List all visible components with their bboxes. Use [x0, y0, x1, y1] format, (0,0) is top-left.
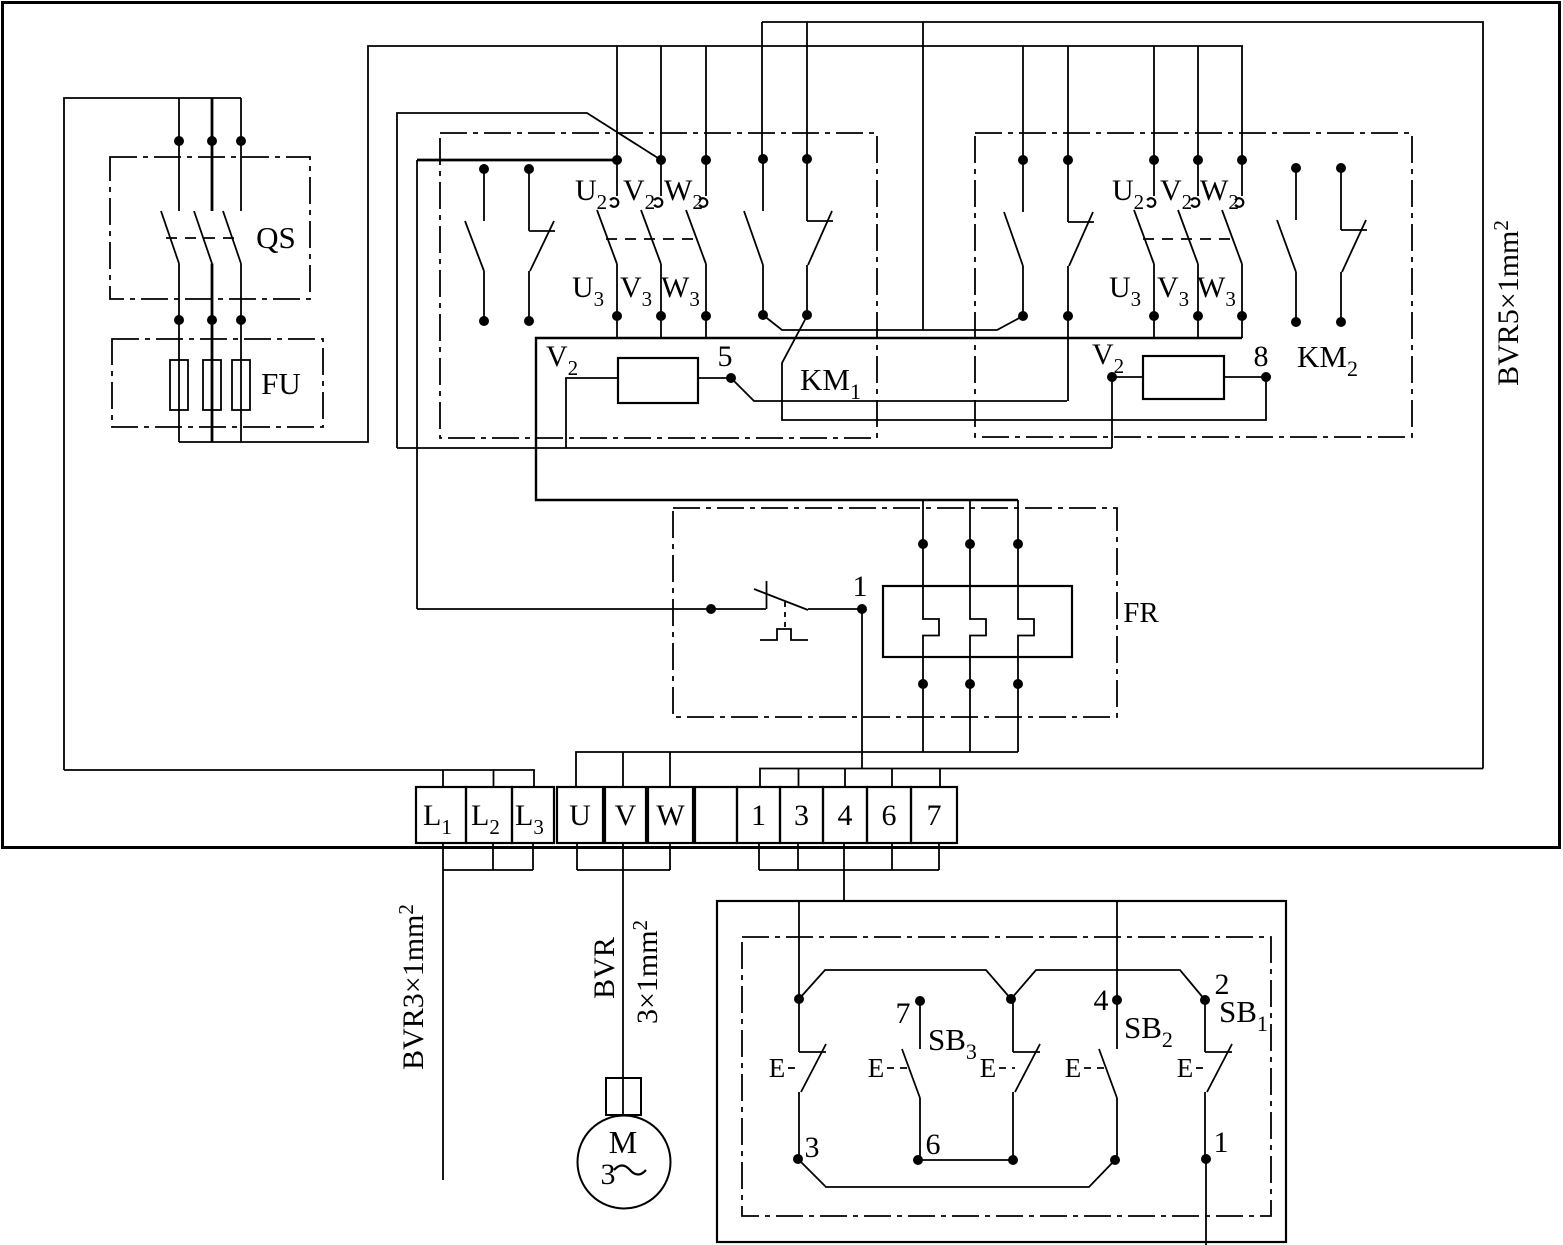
label KM2 U3 — [1109, 271, 1141, 311]
label KM2 W3 — [1197, 271, 1236, 311]
svg-text:6: 6 — [926, 1128, 941, 1161]
label BVR5x1mm2 — [1489, 220, 1525, 386]
node FR input — [706, 604, 716, 614]
wire numbered terminals bundle below — [759, 843, 939, 870]
wire KM2 outputs to bundle — [1154, 316, 1242, 338]
contactor KM1 enclosure — [440, 133, 877, 438]
svg-text:5: 5 — [718, 340, 733, 373]
svg-text:1: 1 — [1214, 1126, 1229, 1159]
wire to button station — [843, 870, 845, 901]
label KM2 coil V2 — [1092, 338, 1124, 378]
node SB column tops — [794, 994, 1210, 1006]
svg-text:3: 3 — [794, 799, 809, 832]
svg-text:E: E — [980, 1053, 997, 1083]
KM1 main contact V — [641, 160, 662, 316]
node QS output dots — [174, 315, 246, 325]
label KM2 U2 — [1112, 174, 1144, 214]
label node 5 — [718, 340, 733, 373]
terminal labels — [423, 799, 942, 839]
svg-text:E: E — [1065, 1053, 1082, 1083]
label SB2 — [1124, 1010, 1173, 1052]
label KM1 U3 — [572, 271, 604, 311]
label node 1 bottom — [1214, 1126, 1229, 1159]
label KM1 coil V2 — [546, 340, 578, 380]
wire node 1 to terminal bundle — [861, 609, 863, 769]
svg-text:M: M — [609, 1124, 637, 1160]
label KM2 V3 — [1157, 271, 1189, 311]
wire upper control bus — [762, 22, 1483, 769]
node KM2 main input dots — [1149, 155, 1247, 165]
label node 3 bottom — [805, 1131, 820, 1164]
coil KM1 — [566, 358, 731, 448]
KM2 linkage — [1143, 238, 1236, 240]
KM1 spare aux NC — [524, 164, 555, 326]
wire terminals UVW to motor cable — [577, 843, 670, 870]
svg-text:4: 4 — [1094, 984, 1109, 1017]
label KM1 W3 — [661, 271, 700, 311]
wire supply bus to QS — [64, 98, 241, 770]
svg-text:E: E — [1177, 1053, 1194, 1083]
FR heater box — [883, 586, 1072, 657]
svg-text:BVR: BVR — [588, 937, 621, 999]
node KM2 main output dots — [1149, 311, 1247, 321]
svg-text:QS: QS — [256, 220, 296, 255]
terminal strip XT — [416, 787, 957, 843]
label SB1 — [1219, 994, 1268, 1036]
button station inner frame — [742, 937, 1271, 1216]
fuse FU3 — [232, 320, 250, 442]
KM2 main contact W — [1222, 160, 1243, 316]
FR heater element 1 — [918, 500, 939, 752]
svg-text:8: 8 — [1254, 340, 1269, 373]
wire KM2 aux risers — [1023, 46, 1068, 160]
svg-text:BVR5×1mm2: BVR5×1mm2 — [1489, 220, 1525, 386]
node 8 — [1261, 372, 1271, 382]
label FU — [261, 366, 301, 401]
label 3x1mm2 — [628, 920, 664, 1024]
KM1 aux NC contact — [802, 154, 833, 320]
FR heater element 2 — [965, 500, 986, 752]
label node 2 — [1215, 968, 1230, 1001]
label KM2 V2 — [1160, 174, 1192, 214]
FR heater element 3 — [1013, 500, 1034, 752]
svg-text:3: 3 — [601, 1158, 616, 1191]
svg-text:U: U — [569, 799, 591, 832]
QS linkage — [166, 237, 241, 239]
svg-text:E: E — [868, 1053, 885, 1083]
label node 4 — [1094, 984, 1109, 1017]
label KM1 W2 — [664, 174, 703, 214]
label BVR — [588, 937, 621, 999]
motor M — [578, 1116, 671, 1209]
svg-text:4: 4 — [838, 799, 853, 832]
svg-text:W: W — [656, 799, 685, 832]
svg-text:BVR3×1mm2: BVR3×1mm2 — [394, 904, 430, 1070]
wire riser to KM1 aux NC — [806, 22, 808, 159]
wire node 5 to KM2 aux NC — [731, 378, 1067, 401]
wire cable BVR to motor — [622, 870, 624, 1116]
push button stop 3 — [769, 999, 826, 1159]
wire cable BVR3 — [442, 870, 444, 1180]
fuse FU1 — [170, 320, 188, 442]
wire FU output bundle — [179, 46, 1243, 442]
wire station lower bundle — [798, 1159, 1115, 1187]
label node 7 — [896, 997, 911, 1030]
wire KM1 aux NO to KM2 aux NO — [763, 315, 1023, 330]
label KM1 U2 — [575, 174, 607, 214]
wire FR outputs to terminals U V W — [576, 752, 1018, 787]
node KM1 main input dots — [612, 155, 711, 165]
svg-text:E: E — [769, 1053, 786, 1083]
button station enclosure — [717, 901, 1286, 1242]
KM1 main contact W — [686, 160, 707, 316]
contactor KM2 enclosure — [975, 133, 1412, 437]
switch QS pole 2 — [194, 141, 212, 320]
wire coil bundle — [397, 447, 1112, 449]
label BVR3x1mm2 — [394, 904, 430, 1070]
KM1 aux NO contact — [744, 154, 768, 320]
wire riser middle — [922, 22, 924, 330]
label SB3 — [928, 1022, 977, 1064]
wire KM1 main risers — [617, 46, 706, 160]
KM2 main contact U — [1134, 160, 1155, 316]
wire node 1 exit — [1205, 1159, 1207, 1245]
svg-text:6: 6 — [882, 799, 897, 832]
motor M terminal box — [606, 1078, 641, 1115]
node SB column bottoms — [793, 1154, 1211, 1165]
wire control to FR test switch — [417, 608, 711, 610]
label node 8 — [1254, 340, 1269, 373]
svg-text:1: 1 — [751, 799, 766, 832]
wire control tap — [417, 160, 617, 609]
push button SB1 — [1177, 1000, 1232, 1159]
wire KM1 aux NC to node 8 — [782, 316, 1266, 420]
wire terminals L to supply cable — [443, 843, 533, 870]
svg-text:1: 1 — [853, 570, 868, 603]
svg-text:7: 7 — [896, 997, 911, 1030]
label KM1 — [800, 362, 861, 404]
svg-text:FR: FR — [1123, 597, 1159, 629]
svg-text:FU: FU — [261, 366, 301, 401]
outer enclosure border — [3, 3, 1560, 848]
switch QS pole 1 — [161, 141, 179, 320]
label KM1 V2 — [623, 174, 655, 214]
fuse FU enclosure — [112, 339, 323, 427]
svg-text:V: V — [615, 799, 637, 832]
push button stop middle — [980, 999, 1040, 1160]
KM2 spare aux NO — [1277, 163, 1301, 327]
KM2 aux NO contact — [1004, 155, 1028, 321]
node 1 — [857, 604, 867, 614]
label KM2 W2 — [1200, 174, 1239, 214]
push button SB2 — [1065, 1000, 1117, 1160]
node 5 — [726, 373, 736, 383]
wire into station node 3 column — [798, 901, 800, 999]
label FR — [1123, 597, 1159, 629]
node QS input dots — [174, 136, 246, 146]
label QS — [256, 220, 296, 255]
label node 6 bottom — [926, 1128, 941, 1161]
wire control bundle to numbered terminals — [760, 769, 1483, 788]
wire branch to KM1 V2 dot — [397, 113, 661, 448]
wire KM2 aux NC drop — [1067, 316, 1069, 401]
disconnect switch QS enclosure — [110, 157, 310, 299]
push button SB3 — [868, 1001, 920, 1160]
wire KM1 outputs to bundle — [617, 316, 706, 338]
wire riser to KM1 aux NO — [761, 22, 763, 159]
svg-text:7: 7 — [927, 799, 942, 832]
switch QS pole 3 — [223, 141, 241, 320]
KM2 aux NC contact — [1063, 155, 1094, 321]
svg-text:3×1mm2: 3×1mm2 — [628, 920, 664, 1024]
svg-text:3: 3 — [805, 1131, 820, 1164]
wire supply to terminals L1 L2 L3 — [64, 770, 534, 787]
label node 1 — [853, 570, 868, 603]
thermal relay FR enclosure — [673, 508, 1117, 717]
KM1 main contact U — [597, 160, 618, 316]
wire motor tap bundle — [536, 338, 1242, 500]
label KM1 V3 — [620, 271, 652, 311]
KM1 linkage — [606, 238, 699, 240]
wire station upper bundle — [799, 970, 1205, 1000]
coil KM2 — [1107, 356, 1266, 448]
FR trip contact — [711, 581, 862, 640]
wire QS middle phase — [211, 98, 214, 141]
wire into station node 4 column — [1116, 901, 1118, 1000]
label KM2 — [1297, 339, 1358, 381]
node KM1 main output dots — [612, 311, 711, 321]
KM2 main contact V — [1178, 160, 1199, 316]
KM1 spare aux NO — [465, 164, 489, 326]
KM2 spare aux NC — [1336, 163, 1367, 327]
wire KM2 main risers — [1154, 46, 1242, 160]
fuse FU2 — [203, 320, 221, 442]
